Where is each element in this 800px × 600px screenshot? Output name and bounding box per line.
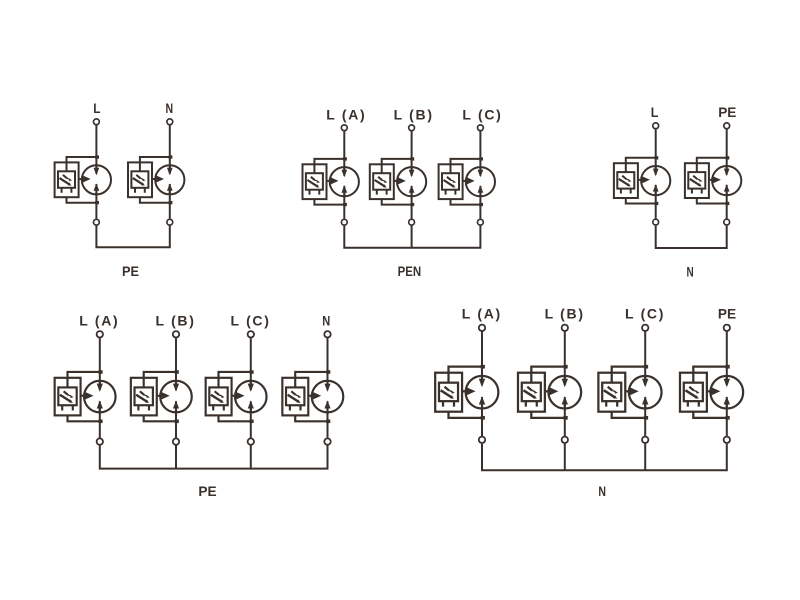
terminal C bottom <box>642 437 648 443</box>
terminal A top <box>341 125 347 131</box>
wire L lower <box>95 184 97 219</box>
svg-text:L: L <box>93 100 101 116</box>
wire PE lower <box>726 397 728 436</box>
terminal L top <box>653 123 659 129</box>
wire B lower <box>564 397 566 436</box>
wire B riser <box>411 226 413 248</box>
svg-text:PEN: PEN <box>398 263 422 279</box>
terminal N top <box>324 331 330 337</box>
wire B lower <box>411 186 413 219</box>
wire B upper <box>564 332 566 386</box>
wire C upper <box>250 338 252 390</box>
wire N upper <box>169 125 171 173</box>
SPD module on A <box>303 157 359 206</box>
SPD module on C <box>598 365 661 420</box>
wire A upper <box>343 131 345 175</box>
SPD module on B <box>370 157 426 206</box>
terminal C top <box>642 325 648 331</box>
wire A upper <box>481 332 483 386</box>
svg-text:N: N <box>166 100 174 116</box>
terminal B bottom <box>173 438 179 444</box>
terminal PE bottom <box>724 219 730 225</box>
terminal L bottom <box>94 219 100 225</box>
terminal N bottom <box>324 438 330 444</box>
terminal PE top <box>724 123 730 129</box>
svg-text:L (B): L (B) <box>545 306 583 322</box>
SPD module on C <box>439 157 495 206</box>
SPD module on PE <box>685 156 741 205</box>
terminal A top <box>479 325 485 331</box>
SPD module on B <box>131 370 192 423</box>
svg-text:L (A): L (A) <box>79 313 117 329</box>
wire C upper <box>479 131 481 175</box>
svg-text:L (B): L (B) <box>394 107 432 123</box>
wire A lower <box>99 401 101 438</box>
SPD module on PE <box>680 365 743 420</box>
wire N upper <box>327 338 329 390</box>
wire L upper <box>95 125 97 173</box>
terminal PE bottom <box>724 437 730 443</box>
wire N lower <box>327 401 329 438</box>
wire C riser <box>250 446 252 469</box>
PE bus wire <box>100 446 328 469</box>
wire PE lower <box>726 185 728 219</box>
SPD module on L <box>614 156 670 205</box>
wire PE upper <box>726 332 728 386</box>
SPD module on N <box>282 370 343 423</box>
terminal A bottom <box>97 438 103 444</box>
terminal N bottom <box>167 219 173 225</box>
SPD module on L <box>55 155 111 204</box>
terminal A bottom <box>479 437 485 443</box>
terminal B bottom <box>409 219 415 225</box>
SPD module on A <box>55 370 116 423</box>
terminal N top <box>167 119 173 125</box>
svg-text:L (A): L (A) <box>326 107 364 123</box>
terminal A top <box>97 331 103 337</box>
terminal C top <box>478 125 484 131</box>
SPD module on N <box>128 155 184 204</box>
svg-text:L (B): L (B) <box>156 313 194 329</box>
svg-text:L (C): L (C) <box>462 107 500 123</box>
svg-text:L (C): L (C) <box>231 313 269 329</box>
terminal B top <box>409 125 415 131</box>
SPD module on A <box>435 365 498 420</box>
PE bus wire <box>96 226 169 248</box>
wire N lower <box>169 184 171 219</box>
wire C upper <box>644 332 646 386</box>
terminal A bottom <box>341 219 347 225</box>
svg-text:L (C): L (C) <box>625 306 663 322</box>
wire L upper <box>655 129 657 174</box>
SPD module on C <box>206 370 267 423</box>
terminal B top <box>562 325 568 331</box>
wire A upper <box>99 338 101 390</box>
svg-text:N: N <box>598 483 606 499</box>
wire B upper <box>175 338 177 390</box>
svg-text:N: N <box>687 263 694 279</box>
wire B riser <box>564 444 566 471</box>
terminal PE top <box>724 325 730 331</box>
terminal B top <box>173 331 179 337</box>
wire A lower <box>343 186 345 219</box>
wire B lower <box>175 401 177 438</box>
terminal B bottom <box>562 437 568 443</box>
svg-text:L (A): L (A) <box>462 306 500 322</box>
svg-text:PE: PE <box>718 104 736 120</box>
wire C lower <box>250 401 252 438</box>
wire B riser <box>175 446 177 469</box>
terminal L top <box>94 119 100 125</box>
wire C riser <box>644 444 646 471</box>
svg-text:PE: PE <box>122 263 139 279</box>
svg-text:PE: PE <box>718 306 736 322</box>
svg-text:L: L <box>651 104 659 120</box>
wire C lower <box>479 186 481 219</box>
wire B upper <box>411 131 413 175</box>
terminal L bottom <box>653 219 659 225</box>
N bus wire <box>656 226 727 248</box>
terminal C bottom <box>478 219 484 225</box>
terminal C bottom <box>248 438 254 444</box>
wire L lower <box>655 185 657 219</box>
terminal C top <box>248 331 254 337</box>
PEN bus wire <box>344 226 480 248</box>
svg-text:N: N <box>322 313 330 329</box>
SPD module on B <box>518 365 581 420</box>
N bus wire <box>482 444 727 471</box>
wire C lower <box>644 397 646 436</box>
svg-text:PE: PE <box>198 483 216 499</box>
wire A lower <box>481 397 483 436</box>
wire PE upper <box>726 129 728 174</box>
